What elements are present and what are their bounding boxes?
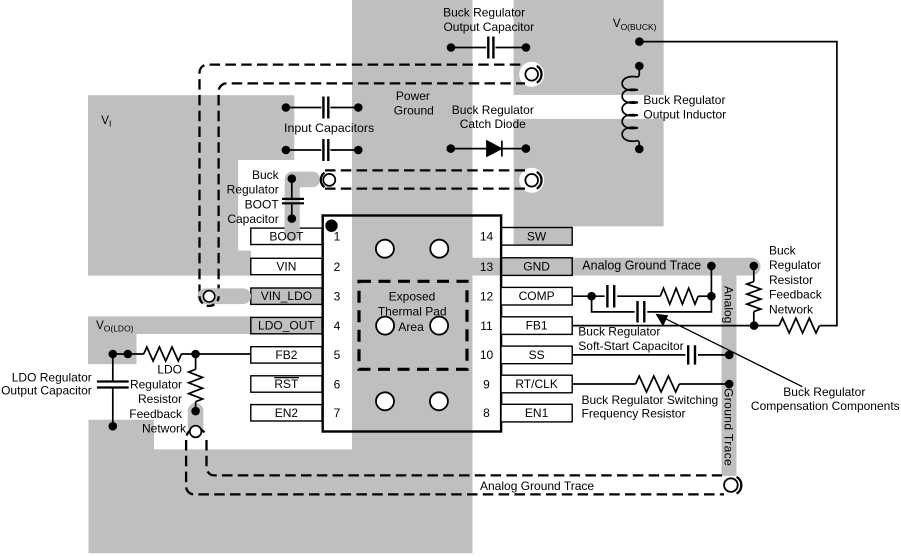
svg-text:Buck Regulator Switching: Buck Regulator Switching (582, 393, 719, 407)
RST overline (274, 377, 299, 379)
node dots LDO feedback row (109, 350, 118, 359)
diode D1 buck catch diode (451, 141, 526, 157)
svg-text:LDO Regulator: LDO Regulator (12, 370, 92, 384)
pin numbers 1-7 (334, 230, 341, 421)
svg-text:Analog Ground Trace: Analog Ground Trace (480, 479, 594, 493)
copper pour VI (input supply) (88, 95, 294, 275)
pin box VIN_LDO (pin 3) (251, 288, 322, 304)
copper trace from BOOT capacitor to via (horizontal capsule) (285, 172, 321, 188)
label Buck Regulator Resistor Feedback Network (769, 244, 823, 317)
pin box FB2 (pin 5) (251, 347, 322, 363)
dashed arc cap around via below VIN_LDO trace (200, 296, 219, 306)
wire buck output capacitor (451, 47, 526, 49)
resistor switching frequency (636, 376, 680, 392)
wire analog ground to comp node (710, 266, 712, 296)
pin numbers 8-14 (480, 230, 494, 421)
resistor buck feedback lower (vertical) (747, 266, 761, 326)
copper pour power-ground column (352, 0, 473, 460)
svg-text:RT/CLK: RT/CLK (515, 377, 557, 391)
svg-text:Catch Diode: Catch Diode (460, 117, 526, 131)
svg-text:BOOT: BOOT (269, 229, 304, 243)
svg-text:11: 11 (480, 319, 493, 333)
dashed analog ground trace corridor (bottom) (186, 440, 724, 494)
wire SS to soft-start capacitor (572, 354, 685, 356)
white clearance disc around via under output capacitor (519, 62, 544, 87)
label Buck Regulator BOOT Capacitor (227, 168, 280, 226)
svg-text:3: 3 (334, 290, 341, 304)
copper pour VO(LDO) (88, 316, 251, 364)
resistor LDO feedback lower (vertical) (189, 354, 203, 411)
svg-text:Analog Ground Trace: Analog Ground Trace (582, 259, 701, 273)
dashed arc at BOOT capacitor via (321, 173, 325, 188)
capacitor BOOT C plates and wires (291, 179, 293, 219)
svg-text:Network: Network (769, 302, 814, 316)
pin box RT/CLK (pin 9) (501, 375, 572, 393)
svg-text:BOOT: BOOT (245, 197, 280, 211)
svg-text:Feedback: Feedback (129, 407, 183, 421)
svg-text:8: 8 (483, 406, 490, 420)
wire comp lower branch (592, 296, 635, 312)
svg-text:SS: SS (529, 348, 545, 362)
svg-text:FB2: FB2 (275, 348, 297, 362)
resistor LDO feedback upper (144, 347, 182, 361)
capacitor input C2 plates (323, 139, 328, 161)
wire comp C1 to R (617, 295, 660, 297)
node dots catch diode (447, 144, 456, 153)
copper pour bottom analog ground (89, 420, 473, 554)
resistor comp R (660, 288, 698, 304)
svg-text:9: 9 (483, 377, 490, 391)
svg-text:GND: GND (523, 260, 550, 274)
pin box EN1 (pin 8) (501, 404, 572, 422)
copper trace from via to VIN_LDO pin (capsule) (198, 288, 252, 304)
copper trace from LDO feedback to via (capsule) (188, 403, 204, 434)
svg-text:Thermal Pad: Thermal Pad (378, 304, 447, 318)
pin box SS (pin 10) (501, 346, 572, 364)
copper pour SW lower (514, 119, 664, 245)
svg-text:Ground Trace: Ground Trace (722, 388, 736, 466)
svg-text:Feedback: Feedback (769, 288, 823, 302)
svg-text:Compensation Components: Compensation Components (751, 399, 900, 413)
white clearance disc around via under catch diode (519, 168, 544, 193)
copper trace GND analog ground (row 13) (460, 258, 761, 276)
svg-text:6: 6 (334, 377, 341, 391)
wire VO(BUCK) to feedback network (right edge) (639, 42, 837, 326)
svg-text:Buck Regulator: Buck Regulator (452, 103, 534, 117)
pin label texts (258, 229, 558, 419)
copper trace analog ground vertical strip (722, 262, 737, 476)
svg-text:10: 10 (480, 348, 494, 362)
pin box COMP (pin 12) (501, 287, 572, 305)
capacitor comp C1 plates (607, 285, 614, 308)
dashed arc end at bottom-right via (737, 477, 742, 494)
svg-text:Buck: Buck (769, 244, 797, 258)
dashed arc end at via under output capacitor (537, 66, 542, 83)
via at bottom analog ground trace (724, 478, 738, 492)
exposed thermal pad dashed outline (359, 281, 467, 369)
node dots buck feedback (750, 262, 759, 271)
dashed power-ground trace corridor (left loop to via under output capacitor) (200, 65, 526, 295)
pin box EN2 (pin 7) (251, 405, 322, 421)
wire RT/CLK to frequency resistor (572, 383, 635, 385)
node dots buck output capacitor (447, 43, 456, 52)
svg-text:Network: Network (142, 422, 187, 436)
svg-text:VIN: VIN (276, 260, 296, 274)
wire FB2 row (LDO feedback) (113, 353, 251, 355)
node dot VO(BUCK) (635, 37, 644, 46)
wire COMP to compensation network (572, 295, 604, 297)
node dots inductor (635, 62, 644, 71)
dashed arc caps at LDO feedback via (187, 428, 206, 435)
svg-text:Exposed: Exposed (389, 290, 436, 304)
svg-text:Resistor: Resistor (769, 273, 813, 287)
svg-text:Output Inductor: Output Inductor (643, 108, 726, 122)
capacitor LDO output (112, 354, 114, 426)
copper pour VO(BUCK) upper (514, 0, 664, 95)
svg-text:13: 13 (480, 260, 494, 274)
dashed arc end at catch-diode via (537, 172, 542, 189)
copper trace from BOOT capacitor into BOOT pin (vertical capsule) (285, 178, 300, 242)
svg-text:Power: Power (396, 89, 430, 103)
wire input capacitor row 1 (286, 107, 358, 109)
svg-text:VIN_LDO: VIN_LDO (261, 289, 312, 303)
node dots compensation (587, 292, 596, 301)
wire FB1 to feedback divider (572, 325, 754, 327)
svg-text:1: 1 (334, 230, 341, 244)
svg-text:Output Capacitor: Output Capacitor (443, 20, 534, 34)
svg-text:Soft-Start Capacitor: Soft-Start Capacitor (578, 339, 683, 353)
capacitor comp C2 plates (638, 301, 645, 323)
pin box LDO_OUT (pin 4) (251, 317, 322, 333)
svg-text:Area: Area (398, 320, 424, 334)
pin box FB1 (pin 11) (501, 317, 572, 335)
svg-text:Buck Regulator: Buck Regulator (578, 325, 660, 339)
svg-text:5: 5 (334, 348, 341, 362)
node dots BOOT capacitor (288, 174, 297, 183)
svg-text:Capacitor: Capacitor (227, 212, 278, 226)
svg-text:Regulator: Regulator (130, 377, 182, 391)
via at BOOT trace (323, 174, 335, 186)
svg-text:Buck Regulator: Buck Regulator (783, 385, 865, 399)
inductor L1 buck output (622, 66, 639, 149)
svg-text:FB1: FB1 (526, 319, 548, 333)
svg-text:Analog: Analog (722, 286, 736, 323)
via under output capacitor (525, 68, 538, 81)
resistor buck feedback upper (horizontal) (779, 318, 819, 333)
pin box GND (pin 13) (501, 258, 572, 276)
thermal vias inside IC (376, 240, 448, 411)
svg-text:Regulator: Regulator (227, 183, 279, 197)
via at LDO feedback network (190, 426, 202, 438)
svg-text:Buck Regulator: Buck Regulator (443, 5, 525, 19)
svg-text:Regulator: Regulator (769, 258, 821, 272)
svg-text:EN2: EN2 (275, 406, 299, 420)
svg-text:LDO_OUT: LDO_OUT (258, 319, 315, 333)
label LDO Regulator Resistor Feedback Network (129, 363, 187, 436)
wire input capacitor row 2 (286, 149, 358, 151)
svg-text:14: 14 (480, 230, 494, 244)
svg-text:Buck Regulator: Buck Regulator (643, 93, 725, 107)
svg-text:Output Capacitor: Output Capacitor (1, 383, 92, 397)
svg-text:12: 12 (480, 290, 494, 304)
svg-text:SW: SW (527, 229, 547, 243)
capacitor input C1 plates (323, 97, 328, 119)
via at VIN_LDO trace (203, 291, 214, 302)
svg-text:LDO: LDO (157, 363, 182, 377)
IC body U1 (323, 216, 501, 432)
svg-text:4: 4 (334, 319, 341, 333)
node dots input C1 (282, 103, 291, 112)
pin box RST (pin 6) (251, 376, 322, 392)
wire comp R to node (698, 295, 711, 297)
capacitor buck output plates (488, 37, 493, 59)
svg-text:2: 2 (334, 260, 341, 274)
svg-text:Frequency Resistor: Frequency Resistor (582, 407, 686, 421)
pin box BOOT (pin 1) (251, 228, 322, 244)
capacitor soft-start plates (688, 345, 695, 364)
svg-text:RST: RST (274, 377, 299, 391)
via under catch diode (525, 174, 538, 187)
node dots input C2 (282, 146, 291, 155)
pin box VIN (pin 2) (251, 258, 322, 274)
dashed power-ground trace corridor (BOOT via to catch-diode via) (325, 170, 525, 188)
svg-text:COMP: COMP (519, 289, 555, 303)
svg-text:Ground: Ground (394, 103, 434, 117)
arrow to compensation components (665, 319, 802, 387)
pin box SW (pin 14) (501, 228, 572, 246)
svg-text:Input Capacitors: Input Capacitors (284, 121, 374, 135)
svg-text:Buck: Buck (252, 168, 280, 182)
svg-text:EN1: EN1 (525, 406, 549, 420)
svg-text:Resistor: Resistor (138, 392, 182, 406)
pin 1 marker dot (325, 220, 337, 232)
svg-text:7: 7 (334, 406, 341, 420)
